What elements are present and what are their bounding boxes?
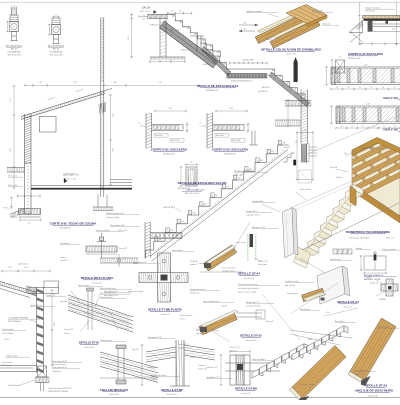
- svg-text:1.50: 1.50: [10, 148, 12, 152]
- svg-text:HUELLA .30: HUELLA .30: [163, 206, 173, 209]
- svg-text:Escala 1/10: Escala 1/10: [241, 393, 250, 395]
- svg-text:COLUMNA MAD.: COLUMNA MAD.: [49, 51, 63, 54]
- svg-text:Viga Completa: Viga Completa: [355, 369, 366, 372]
- svg-text:metalica: metalica: [151, 378, 157, 381]
- svg-text:Escala 1/10: Escala 1/10: [109, 394, 118, 396]
- svg-text:Viga 2x8: Viga 2x8: [132, 349, 139, 351]
- svg-text:DETALLE DM-01 PLANTA: DETALLE DM-01 PLANTA: [81, 276, 114, 280]
- svg-text:1.26: 1.26: [113, 113, 115, 116]
- svg-text:arandela y tuerca: arandela y tuerca: [178, 347, 191, 350]
- svg-text:.50: .50: [347, 87, 349, 89]
- svg-text:ESCALA 1/20: ESCALA 1/20: [224, 153, 236, 156]
- svg-text:Tornillo 1/2" c/: Tornillo 1/2" c/: [178, 343, 189, 346]
- svg-text:CEPILLADA 4x4: CEPILLADA 4x4: [8, 320, 21, 323]
- svg-text:Escala 1/10: Escala 1/10: [84, 347, 93, 349]
- svg-text:DETALLE DT-A3: DETALLE DT-A3: [365, 384, 388, 388]
- svg-text:Viga de apoyo: Viga de apoyo: [287, 293, 298, 295]
- svg-text:ESC: ESC: [215, 195, 218, 197]
- svg-text:Correa 2"x2": Correa 2"x2": [46, 294, 56, 297]
- svg-text:DETALLE ET-(M) PLANTA: DETALLE ET-(M) PLANTA: [148, 308, 182, 312]
- svg-text:Clavo 4": Clavo 4": [190, 357, 197, 359]
- svg-text:CORTE E-01: ESCALERA: CORTE E-01: ESCALERA: [151, 148, 188, 152]
- svg-text:COLUMNA MAD.: COLUMNA MAD.: [7, 51, 21, 54]
- svg-text:(variable s/ diseno): (variable s/ diseno): [246, 305, 261, 308]
- svg-text:Muro: Muro: [308, 338, 312, 341]
- svg-text:0.60: 0.60: [243, 29, 246, 31]
- svg-text:ESC: ESC: [283, 143, 286, 145]
- svg-text:ESC: ESC: [159, 239, 162, 241]
- svg-text:.50: .50: [351, 126, 353, 128]
- svg-text:Viga madera 2"x8": Viga madera 2"x8": [133, 261, 147, 264]
- svg-text:2.55: 2.55: [128, 36, 130, 39]
- svg-text:0.17: 0.17: [142, 19, 145, 21]
- svg-text:arandela y tuerca: arandela y tuerca: [222, 270, 235, 273]
- svg-text:CORTE B-B: TECHO DE COCINA: CORTE B-B: TECHO DE COCINA: [50, 222, 97, 226]
- svg-text:DEPOSITO 1: DEPOSITO 1: [63, 173, 79, 177]
- svg-text:ANCLAJE METALICO: ANCLAJE METALICO: [100, 388, 129, 392]
- svg-text:Tirafondo 2"x2": Tirafondo 2"x2": [206, 366, 218, 369]
- svg-text:DETALLE ET-M2: DETALLE ET-M2: [161, 388, 183, 392]
- svg-text:VIGA V-101: VIGA V-101: [383, 96, 398, 100]
- svg-text:ANCLAJE DE VIGAS MURO: ANCLAJE DE VIGAS MURO: [355, 389, 394, 393]
- svg-text:Muro 2"x10": Muro 2"x10": [355, 373, 365, 376]
- svg-text:VIGA V-102: VIGA V-102: [383, 128, 398, 132]
- svg-text:SEC 10x10 20/4: SEC 10x10 20/4: [7, 55, 20, 57]
- svg-text:ESC: ESC: [271, 151, 274, 153]
- svg-text:- Embebido: - Embebido: [52, 371, 61, 373]
- svg-text:Tope Comprens.: Tope Comprens.: [199, 262, 212, 265]
- svg-text:0.30: 0.30: [243, 23, 246, 25]
- svg-text:Escala 1/10: Escala 1/10: [167, 394, 176, 396]
- svg-text:Pieza madera: Pieza madera: [2, 362, 12, 364]
- svg-text:Viga madera 2"x6": Viga madera 2"x6": [104, 294, 118, 297]
- svg-text:metalica (e): metalica (e): [190, 292, 199, 295]
- svg-text:Escala 1/5: Escala 1/5: [93, 283, 101, 285]
- svg-text:N.P.T. +2.55: N.P.T. +2.55: [140, 11, 150, 13]
- svg-text:2x4: 2x4: [344, 153, 347, 155]
- svg-text:SEC 10x10 20/4: SEC 10x10 20/4: [49, 55, 62, 57]
- svg-text:Base anclada: Base anclada: [300, 189, 311, 191]
- svg-text:Tornillo pasante: Tornillo pasante: [100, 339, 112, 342]
- svg-text:h=2.10: h=2.10: [4, 339, 9, 341]
- svg-text:2.10: 2.10: [54, 323, 56, 326]
- svg-text:1.48: 1.48: [229, 108, 233, 110]
- svg-text:ESC: ESC: [226, 186, 229, 188]
- svg-text:arandela 2": arandela 2": [60, 259, 69, 262]
- svg-text:Perno s/8: Perno s/8: [266, 320, 273, 323]
- svg-text:ESC: ESC: [238, 178, 241, 180]
- svg-text:PLANTA: PLANTA: [379, 298, 386, 301]
- svg-text:.15: .15: [199, 123, 201, 125]
- svg-text:perfil ang.: perfil ang.: [60, 301, 68, 303]
- svg-text:.30: .30: [171, 11, 173, 13]
- svg-text:Peldano: Peldano: [336, 177, 342, 179]
- svg-text:Correa 2"x2": Correa 2"x2": [64, 328, 74, 331]
- svg-text:1.65: 1.65: [8, 267, 11, 269]
- svg-text:Tuerca y: Tuerca y: [60, 256, 67, 259]
- svg-text:ESCALA 1/20: ESCALA 1/20: [163, 153, 175, 156]
- svg-text:2"x6" cepillada: 2"x6" cepillada: [2, 333, 13, 335]
- svg-text:.50: .50: [393, 87, 395, 89]
- svg-text:N.P.T. +0.00: N.P.T. +0.00: [4, 208, 13, 210]
- svg-text:4.40: 4.40: [366, 104, 370, 106]
- svg-text:Perno anclaje B 3/8": Perno anclaje B 3/8": [52, 360, 68, 363]
- svg-text:2.10: 2.10: [158, 82, 162, 84]
- svg-text:1-Perno de anclaje 20/8x11 1/2: 1-Perno de anclaje 20/8x11 1/2": [48, 387, 72, 390]
- svg-text:0.80: 0.80: [113, 82, 117, 84]
- svg-text:HUELLA .30: HUELLA .30: [150, 24, 159, 27]
- svg-text:ESC: ESC: [170, 230, 173, 232]
- svg-text:.30: .30: [179, 11, 181, 13]
- svg-text:DETALLE DT-M9: DETALLE DT-M9: [235, 387, 257, 391]
- svg-text:4.40: 4.40: [364, 65, 368, 67]
- svg-text:ESC 1/5: ESC 1/5: [11, 49, 17, 51]
- svg-text:ESCALA 1/10: ESCALA 1/10: [206, 89, 219, 92]
- svg-text:Escala 1/20: Escala 1/20: [246, 340, 255, 342]
- svg-text:Dintel 2": Dintel 2": [266, 38, 273, 41]
- svg-text:2"x4" @ 0.40: 2"x4" @ 0.40: [365, 11, 375, 13]
- svg-text:Escala 1/20: Escala 1/20: [368, 396, 377, 398]
- svg-text:grueso o liso var. pulg.: grueso o liso var. pulg.: [238, 292, 256, 294]
- svg-text:HUELLA: HUELLA: [181, 49, 188, 52]
- svg-text:Tornillo de: Tornillo de: [190, 260, 198, 263]
- svg-text:Perno 3/8": Perno 3/8": [119, 247, 127, 250]
- svg-text:.50: .50: [359, 87, 361, 89]
- svg-text:.50: .50: [340, 126, 342, 128]
- svg-text:CORTE E-02: ESCALERA: CORTE E-02: ESCALERA: [212, 148, 249, 152]
- svg-text:DETALLE DT-A2: DETALLE DT-A2: [240, 334, 262, 338]
- svg-text:Perno ancla 1/4" c/: Perno ancla 1/4" c/: [222, 267, 237, 270]
- svg-text:2"x10": 2"x10": [180, 319, 185, 321]
- svg-text:1.10: 1.10: [10, 98, 12, 102]
- svg-text:PELDANO: PELDANO: [196, 189, 205, 192]
- svg-text:Escala 1/5: Escala 1/5: [344, 306, 352, 308]
- svg-text:DETALLE DE ESCALERA BAJ.: DETALLE DE ESCALERA BAJ.: [197, 84, 239, 88]
- svg-text:galv. 3/8 pulg: galv. 3/8 pulg: [285, 285, 295, 287]
- svg-text:Tornillo 3/8 pulg: Tornillo 3/8 pulg: [30, 304, 42, 307]
- svg-text:Clavo 3": Clavo 3": [64, 333, 71, 335]
- svg-text:Viga Canteada: Viga Canteada: [378, 326, 389, 329]
- svg-text:N.P.T. +2.55: N.P.T. +2.55: [66, 179, 76, 181]
- svg-text:Columna: Columna: [198, 365, 205, 367]
- svg-text:(35x35x2 mm): (35x35x2 mm): [2, 365, 13, 367]
- svg-text:.50: .50: [336, 87, 338, 89]
- svg-text:.10: .10: [55, 15, 57, 17]
- svg-text:Tabla de muro: Tabla de muro: [330, 258, 341, 261]
- svg-text:Viga Madera 2"x2": Viga Madera 2"x2": [206, 376, 220, 379]
- svg-text:arandela y tuerca: arandela y tuerca: [246, 214, 260, 217]
- svg-text:Liston 2x2: Liston 2x2: [322, 23, 330, 26]
- svg-text:ESC: ESC: [204, 204, 207, 206]
- svg-text:Viga de madera: Viga de madera: [2, 328, 14, 331]
- svg-text:ESCALA 1/20: ESCALA 1/20: [178, 187, 191, 190]
- svg-text:DETALLE DE ESCALERA SALON: DETALLE DE ESCALERA SALON: [178, 181, 227, 185]
- svg-text:RELLENO: RELLENO: [155, 135, 164, 137]
- svg-text:4 1/2: 4 1/2: [295, 142, 299, 144]
- svg-text:4.50: 4.50: [326, 312, 329, 314]
- svg-text:.50: .50: [362, 126, 364, 128]
- svg-text:Muro de piedra asent.: Muro de piedra asent.: [100, 287, 117, 290]
- svg-text:RELLENO: RELLENO: [216, 135, 225, 137]
- svg-text:C.HUELLA .17: C.HUELLA .17: [169, 29, 180, 32]
- svg-text:Escala 1/5: Escala 1/5: [370, 283, 378, 285]
- svg-text:madera 4": madera 4": [190, 263, 198, 266]
- svg-text:Viga 2x8: Viga 2x8: [330, 167, 337, 169]
- svg-text:1.20: 1.20: [27, 223, 30, 225]
- svg-text:Tornillo c/rosca: Tornillo c/rosca: [78, 284, 89, 287]
- svg-text:COLUMNA DE MADERA: COLUMNA DE MADERA: [8, 317, 29, 320]
- svg-text:Escuadra de anclaje: Escuadra de anclaje: [151, 374, 166, 377]
- svg-text:Escuadra de anclaje: Escuadra de anclaje: [190, 288, 205, 291]
- svg-text:DETALLE DT-A1: DETALLE DT-A1: [238, 272, 261, 276]
- svg-text:tratada y sellada: tratada y sellada: [106, 216, 119, 219]
- svg-text:.15: .15: [138, 123, 140, 125]
- svg-text:ESCALA 1/8: ESCALA 1/8: [60, 227, 71, 230]
- svg-text:DETALLE DT-A4: DETALLE DT-A4: [337, 300, 359, 304]
- svg-text:(2) mt: (2) mt: [24, 266, 29, 269]
- svg-text:Union t/caja: Union t/caja: [236, 241, 246, 244]
- svg-text:Plato metalico 8"x8": Plato metalico 8"x8": [52, 366, 67, 369]
- svg-text:DETALLE ET-05: DETALLE ET-05: [79, 341, 100, 345]
- svg-text:CORTE E-07 ESCALERA: CORTE E-07 ESCALERA: [348, 52, 384, 56]
- svg-text:ISOMETRICO TECHO/MADERA: ISOMETRICO TECHO/MADERA: [346, 230, 391, 234]
- svg-text:ESC. 1/5: ESC. 1/5: [386, 238, 394, 240]
- svg-text:REVOQUE: REVOQUE: [171, 140, 180, 142]
- svg-text:SECCION .25x.40: SECCION .25x.40: [185, 193, 200, 195]
- svg-text:Escala 1/5: Escala 1/5: [286, 54, 296, 56]
- svg-text:Tope Comprens.: Tope Comprens.: [180, 314, 193, 317]
- svg-text:Escala 1/20: Escala 1/20: [244, 278, 254, 280]
- svg-text:ESC: ESC: [193, 213, 196, 215]
- svg-text:perfil metalico: perfil metalico: [18, 263, 28, 266]
- svg-text:Muro 1/2" (2): Muro 1/2" (2): [258, 260, 268, 263]
- svg-text:Viga 1/2" (2): Viga 1/2" (2): [230, 347, 240, 349]
- svg-text:Tornillo de anclaje: Tornillo de anclaje: [285, 280, 299, 283]
- svg-text:Sobrecarga = Acc/Kg/m: Sobrecarga = Acc/Kg/m: [349, 237, 369, 240]
- svg-text:Columna de madera: Columna de madera: [128, 290, 143, 293]
- svg-text:Apoyo 2x4: Apoyo 2x4: [148, 366, 156, 369]
- svg-text:ESC: ESC: [181, 221, 184, 223]
- svg-text:SALON: SALON: [142, 7, 151, 10]
- svg-text:Suelo Mejorado: Suelo Mejorado: [8, 384, 20, 387]
- svg-text:.50: .50: [382, 87, 384, 89]
- svg-text:Anclaje cabio 1/2": Anclaje cabio 1/2": [246, 301, 260, 304]
- svg-text:Bajo el Muro: Bajo el Muro: [335, 320, 345, 323]
- svg-text:Viga Completa 2x10: Viga Completa 2x10: [203, 300, 219, 303]
- svg-text:Canteada Completa: Canteada Completa: [300, 383, 315, 386]
- svg-text:Viga madera 2"x8": Viga madera 2"x8": [104, 290, 118, 293]
- svg-text:DETALLE 1/10: DETALLE 1/10: [348, 57, 360, 60]
- svg-text:Tongo de madera: Tongo de madera: [252, 358, 265, 361]
- svg-text:1.48: 1.48: [168, 108, 172, 110]
- svg-text:.10: .10: [13, 6, 15, 8]
- svg-text:Pend. 45: Pend. 45: [284, 147, 290, 149]
- svg-text:2.11: 2.11: [73, 82, 76, 84]
- svg-text:DETALLE COLOCACION DE EVENBLAD: DETALLE COLOCACION DE EVENBLADO: [261, 48, 321, 52]
- svg-text:tabla y yeso: tabla y yeso: [258, 263, 267, 266]
- svg-text:Viga madera 2"x8": Viga madera 2"x8": [148, 336, 162, 339]
- svg-text:ESC: ESC: [260, 160, 263, 162]
- svg-text:con anclaje tipo (variable): con anclaje tipo (variable): [238, 287, 259, 290]
- svg-text:.50: .50: [370, 87, 372, 89]
- svg-text:.25: .25: [190, 162, 192, 164]
- svg-text:Tornillo: Tornillo: [366, 276, 371, 279]
- svg-text:1.35: 1.35: [38, 82, 42, 84]
- svg-text:.40: .40: [304, 130, 306, 132]
- svg-text:Apoyo: Apoyo: [222, 305, 227, 308]
- svg-text:Escala 1/5: Escala 1/5: [161, 314, 169, 316]
- svg-text:.25: .25: [339, 57, 341, 59]
- svg-text:ESC 1/5: ESC 1/5: [53, 49, 59, 51]
- svg-text:REVOQUE: REVOQUE: [232, 140, 241, 142]
- svg-text:2.60: 2.60: [113, 148, 115, 151]
